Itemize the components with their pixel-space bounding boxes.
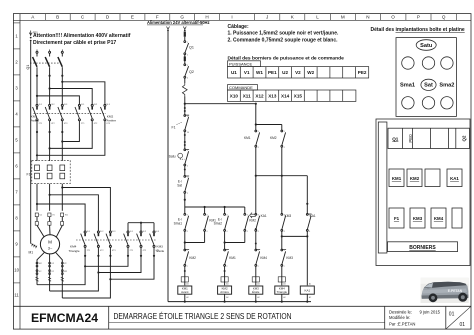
- svg-text:KM3: KM3: [286, 256, 293, 260]
- svg-text:U1: U1: [231, 70, 237, 75]
- wire timer branch E down: [255, 147, 257, 214]
- svg-text:V2: V2: [295, 70, 301, 75]
- PUISSANCE label box: [228, 61, 261, 67]
- header column dividers: [45, 14, 456, 21]
- svg-text:9 juin 2015: 9 juin 2015: [420, 309, 441, 314]
- terminal dot: [224, 270, 226, 272]
- button hole row 1: [402, 57, 453, 69]
- contactor terminal labels top: [87, 231, 160, 252]
- contactor KM2 pole 4: [75, 104, 80, 120]
- contactor KM2 pole 6: [101, 104, 106, 120]
- fuse element chain top: [184, 32, 186, 37]
- wire branch G down: [306, 176, 308, 214]
- terminal ref box branch C: [221, 277, 228, 282]
- Cablage notes: [228, 24, 339, 43]
- svg-text:X14: X14: [281, 93, 290, 98]
- node rail E: [255, 301, 257, 303]
- svg-text:3: 3: [309, 215, 310, 217]
- svg-text:96: 96: [187, 132, 189, 134]
- svg-text:X10: X10: [230, 93, 239, 98]
- svg-text:Triangle: Triangle: [69, 249, 80, 253]
- COMMANDE terminal row: [228, 90, 356, 101]
- wire F1 out pole1: [36, 184, 38, 211]
- svg-text:E: E: [131, 15, 134, 20]
- wire below Q2 aux: [184, 78, 186, 83]
- wire L3 tap to KM2 pole 6: [62, 82, 105, 105]
- svg-text:KM1: KM1: [392, 176, 402, 181]
- wire V1 into motor: [49, 217, 51, 235]
- F1 heater element pole1: [35, 165, 40, 179]
- PUISSANCE terminal row: [228, 67, 369, 78]
- row dividers left column: [13, 23, 20, 283]
- svg-text:4: 4: [284, 147, 285, 149]
- svg-text:B: B: [56, 15, 59, 20]
- KM1 interlock NC contact: [224, 249, 229, 266]
- tie F-G: [282, 235, 308, 237]
- svg-text:M1: M1: [29, 251, 34, 255]
- wire L1 tap to KM2 pole 4: [37, 96, 79, 104]
- thermal relay F1 dashed box: [32, 160, 70, 183]
- node bus branch B: [204, 206, 206, 208]
- svg-text:1: 1: [187, 42, 188, 44]
- svg-text:A1: A1: [283, 283, 285, 286]
- E/Sat label: [177, 180, 182, 188]
- Q1 mechanical link dashed: [30, 62, 61, 64]
- svg-text:2: 2: [187, 193, 188, 195]
- svg-text:2: 2: [187, 266, 188, 268]
- wire branch B from bus: [204, 207, 206, 214]
- svg-text:4: 4: [226, 231, 227, 233]
- thermal F1 module: [389, 208, 404, 228]
- node delta tee pole1: [84, 265, 86, 267]
- svg-text:Sma1: Sma1: [174, 222, 183, 226]
- svg-text:A2: A2: [283, 296, 285, 299]
- E/Sma2 label: [214, 218, 223, 226]
- svg-text:Q1: Q1: [26, 65, 30, 70]
- underline alimentation: [147, 24, 203, 26]
- terminal ref box branch F: [278, 277, 285, 282]
- svg-text:Modifiée le:: Modifiée le:: [389, 315, 410, 320]
- node rail A: [184, 301, 186, 303]
- svg-text:KM3: KM3: [413, 216, 423, 221]
- wire KM2 pole5 output crossover to L2 leg: [50, 121, 93, 149]
- wire branch E mid: [255, 231, 257, 249]
- row numbers 1-11: [14, 34, 19, 298]
- node tap L3 to KM2: [61, 81, 63, 83]
- node junction to timer feed: [184, 103, 186, 105]
- node tap to KM4 pole1: [36, 203, 38, 205]
- wire coil KA1 to rail: [306, 294, 308, 301]
- svg-text:11: 11: [14, 293, 19, 298]
- KM3 Etoile label: [157, 245, 165, 253]
- svg-text:Q1: Q1: [189, 46, 194, 50]
- svg-text:1: 1: [226, 250, 227, 252]
- KM3 contact branch F: [281, 214, 286, 232]
- svg-text:Avant: Avant: [31, 119, 39, 123]
- svg-text:3: 3: [187, 65, 188, 67]
- motor terminal labels U1 V1 W1: [40, 215, 69, 217]
- junction dots under Q1: [36, 75, 64, 77]
- svg-text:PE1: PE1: [268, 70, 277, 75]
- svg-text:KA1: KA1: [261, 214, 267, 218]
- svg-text:3~: 3~: [48, 246, 53, 251]
- svg-text:A2: A2: [186, 296, 188, 299]
- svg-text:3: 3: [258, 215, 259, 217]
- button labels Sma1 Sat Sma2: [400, 83, 454, 89]
- Q1 auxiliary contact: [184, 41, 189, 55]
- wire coil KM2 to rail: [224, 294, 226, 301]
- svg-text:F1: F1: [27, 173, 31, 177]
- circuit breaker Q1 pole 1 blade: [33, 57, 37, 67]
- svg-text:J: J: [266, 15, 268, 20]
- svg-text:2: 2: [187, 54, 188, 56]
- timer feed tie: [256, 124, 282, 126]
- terminal ref box branch E: [252, 277, 259, 282]
- node rail F: [281, 301, 283, 303]
- svg-text:2. Commande 0,75mm2 souple rou: 2. Commande 0,75mm2 souple rouge et blan…: [228, 37, 339, 43]
- svg-text:N: N: [366, 15, 369, 20]
- svg-text:4: 4: [258, 231, 259, 233]
- control rail bottom horizontal: [168, 301, 311, 303]
- contactor KM2 pole 5: [88, 104, 93, 120]
- node tie A: [184, 241, 186, 243]
- PE terminal symbol top left: [29, 31, 32, 42]
- control bus horizontal: [185, 206, 245, 208]
- wire to Q2 aux: [184, 55, 186, 64]
- svg-text:KM2: KM2: [270, 136, 277, 140]
- wire motor bottom W2: [37, 253, 44, 285]
- wire KM2 pole4 output crossover to L3 leg: [62, 121, 79, 142]
- svg-text:KM3: KM3: [285, 214, 292, 218]
- svg-text:COMMANDE: COMMANDE: [229, 85, 253, 90]
- fixed contact ticks power poles: [36, 107, 155, 237]
- svg-text:10: 10: [14, 268, 19, 273]
- relay KA1 module: [447, 169, 462, 187]
- emergency stop Satu contact: [184, 149, 189, 166]
- wire L2 below Q1: [49, 67, 51, 104]
- coil KM4 Triangle: [275, 286, 289, 294]
- KM2 holding contact: [244, 207, 249, 231]
- wire branch C down: [224, 231, 226, 249]
- dessinee info: [389, 309, 441, 326]
- KM1 aux contact timer: [255, 125, 260, 148]
- contactor KM4 module: [431, 208, 446, 228]
- contactor KM1 module: [389, 169, 404, 187]
- svg-text:95: 95: [187, 116, 189, 118]
- svg-text:3: 3: [226, 215, 227, 217]
- svg-text:Dessinée le:: Dessinée le:: [389, 309, 412, 314]
- contactor KM4 triangle pole 1: [81, 231, 86, 247]
- svg-text:Câblage:: Câblage:: [228, 24, 249, 30]
- revision numbers: [449, 312, 465, 328]
- svg-text:Satu: Satu: [420, 43, 433, 49]
- svg-text:PUISSANCE: PUISSANCE: [229, 62, 252, 67]
- wire KM1 pole1 to F1: [36, 121, 38, 161]
- node bus branch C: [224, 206, 226, 208]
- wire KM1 pole2 to F1: [49, 121, 51, 161]
- stop button E/Sat contact: [184, 176, 189, 194]
- circuit breaker Q1 pole 3 blade: [58, 57, 62, 67]
- motor terminal connector V1: [48, 213, 51, 225]
- wire KM4 pole1 down to motor W2: [37, 247, 85, 284]
- svg-text:2: 2: [187, 165, 188, 167]
- wire feed to KA1 timer circuit: [185, 103, 256, 105]
- svg-text:1: 1: [284, 250, 285, 252]
- wire L2 tap to KM2 pole 5: [50, 89, 93, 105]
- svg-text:1: 1: [187, 250, 188, 252]
- wire delta bridge pole3 to etoile pole3: [110, 247, 154, 279]
- E/Sma1 label: [174, 218, 183, 226]
- wire branch D down: [244, 231, 246, 242]
- contactor KM3 etoile pole 2: [137, 231, 142, 247]
- svg-text:1: 1: [258, 250, 259, 252]
- svg-text:A2: A2: [257, 296, 259, 299]
- boite button box: [396, 38, 456, 117]
- node tap to KM4 pole2: [49, 194, 51, 196]
- svg-text:O: O: [391, 15, 395, 20]
- svg-text:2: 2: [226, 266, 227, 268]
- svg-text:Alimentation 24V alternatif-50: Alimentation 24V alternatif-50Hz: [147, 20, 210, 25]
- node tie G mid: [306, 235, 308, 237]
- wire branch G mid: [306, 231, 308, 285]
- svg-text:3: 3: [258, 131, 259, 133]
- KM3 interlock NC contact: [281, 249, 286, 266]
- svg-text:KA1: KA1: [304, 288, 310, 292]
- svg-text:4: 4: [247, 231, 248, 233]
- svg-text:Attention!!!! Alimentation 400: Attention!!!! Alimentation 400V alternat…: [33, 33, 131, 39]
- Sat button ellipse: [421, 79, 436, 90]
- title block divider 3: [445, 306, 447, 329]
- timer feed drop: [255, 104, 257, 125]
- wire tap to KM4 pole2: [50, 195, 99, 231]
- wire KM4 pole2 down to motor U2: [50, 247, 99, 291]
- KM2 aux contact timer: [281, 125, 286, 148]
- svg-text:L: L: [316, 15, 319, 20]
- wire branch B down: [204, 231, 206, 242]
- din row 1 rail: [388, 128, 470, 148]
- node tie E: [255, 175, 257, 177]
- svg-text:KA1: KA1: [450, 176, 459, 181]
- svg-text:W2: W2: [307, 70, 314, 75]
- KA1 NC contact branch G: [306, 214, 311, 232]
- svg-text:2: 2: [284, 266, 285, 268]
- start button E/Sma1 contact: [184, 214, 189, 232]
- contactor KM3 etoile pole 3: [150, 231, 155, 247]
- svg-text:3: 3: [206, 215, 207, 217]
- platine panel box: [376, 119, 470, 266]
- svg-text:Étoile: Étoile: [252, 289, 260, 294]
- svg-text:KM2: KM2: [189, 256, 196, 260]
- svg-text:1: 1: [187, 177, 188, 179]
- F1 heater element pole3: [60, 165, 65, 179]
- KM1 Avant label: [31, 115, 39, 123]
- PE wire down to motor: [30, 42, 32, 244]
- svg-text:Arrière: Arrière: [220, 290, 229, 294]
- svg-text:DEMARRAGE ÉTOILE TRIANGLE 2 SE: DEMARRAGE ÉTOILE TRIANGLE 2 SENS DE ROTA…: [114, 311, 292, 321]
- supply terminal right: [183, 27, 186, 32]
- empty module slot: [425, 169, 440, 187]
- wire to KM3 coil: [255, 266, 257, 285]
- PE connection hatch at motor: [31, 244, 37, 249]
- Detail implantations title: [371, 27, 465, 33]
- thermal squiggle element: [182, 83, 187, 97]
- contactor KM4 triangle pole 2: [94, 231, 99, 247]
- node tap L1 to KM2: [36, 95, 38, 97]
- phase L1 supply terminal: [36, 50, 38, 54]
- svg-text:Satu: Satu: [169, 155, 176, 159]
- motor terminal connector W1: [61, 213, 64, 225]
- empty module slot 2: [452, 208, 462, 228]
- node rail G: [306, 301, 308, 303]
- title block top line: [13, 305, 471, 307]
- svg-text:X13: X13: [268, 93, 277, 98]
- coil KM1 Avant: [178, 286, 192, 294]
- star point bridge KM3 tops: [128, 223, 154, 231]
- svg-text:I: I: [231, 15, 232, 20]
- svg-text:A1: A1: [186, 283, 188, 286]
- node timer feed: [255, 123, 257, 125]
- svg-text:P: P: [417, 15, 420, 20]
- svg-text:Q1: Q1: [392, 136, 399, 141]
- svg-text:KM4: KM4: [434, 216, 444, 221]
- svg-text:A1: A1: [226, 283, 228, 286]
- contactor KM3 etoile pole 1: [124, 231, 129, 247]
- KM1 KM2 mechanical link dashed: [34, 112, 107, 114]
- wire delta bridge pole1 to etoile pole1: [85, 247, 128, 266]
- node tie F: [281, 175, 283, 177]
- tie C-D: [225, 242, 245, 244]
- wire motor bottom U2: [49, 254, 51, 291]
- terminal dots: [184, 134, 186, 146]
- tie to branch G: [256, 175, 307, 177]
- KM4 KM3 mechanical link dashed: [76, 239, 156, 241]
- node branch G: [306, 203, 308, 205]
- supply terminal left: [167, 27, 170, 32]
- svg-text:1: 1: [187, 150, 188, 152]
- wire tap to KM4 pole3: [62, 188, 110, 232]
- vehicle photo: [421, 278, 469, 303]
- node tap L2 to KM2: [49, 87, 51, 89]
- svg-text:E.PETAN: E.PETAN: [448, 289, 463, 293]
- wire to Q1 aux: [184, 37, 186, 41]
- svg-text:V1: V1: [244, 70, 250, 75]
- F1 label leader dashed: [177, 122, 183, 125]
- svg-text:A1: A1: [309, 283, 311, 286]
- cable duct strip: [378, 122, 387, 253]
- contactor KM2 module: [407, 169, 422, 187]
- svg-text:3: 3: [247, 215, 248, 217]
- svg-text:PE2: PE2: [358, 70, 367, 75]
- wire L1 below Q1: [36, 67, 38, 104]
- terminal number ticks: [186, 42, 311, 299]
- svg-text:3: 3: [284, 215, 285, 217]
- F1 NC contact control: [184, 115, 189, 132]
- svg-text:1. Puissance 1,5mm2 souple noi: 1. Puissance 1,5mm2 souple noir et vert/…: [228, 31, 339, 37]
- node timer feed corner: [255, 103, 257, 105]
- svg-text:Sma1: Sma1: [400, 83, 415, 89]
- node delta tee pole2: [97, 271, 99, 273]
- terminal dot: [184, 270, 186, 272]
- svg-text:Directement par câble et prise: Directement par câble et prise P17: [33, 40, 116, 46]
- contactor KM1 pole 1: [33, 104, 38, 120]
- terminal dots branch E: [255, 228, 257, 245]
- svg-text:W1: W1: [256, 70, 263, 75]
- svg-text:KM1: KM1: [229, 256, 236, 260]
- contactor KM4 triangle pole 3: [106, 231, 111, 247]
- wire coil KM1 to rail: [184, 294, 186, 301]
- svg-text:M: M: [48, 240, 52, 245]
- frame left number column line: [19, 14, 21, 330]
- wire to junction: [184, 97, 186, 115]
- svg-text:F1: F1: [172, 126, 176, 130]
- wire below F1: [184, 132, 186, 149]
- KM4 Triangle label: [69, 245, 80, 253]
- svg-text:KM2: KM2: [410, 176, 420, 181]
- button hole row 2: [402, 97, 453, 109]
- svg-text:4: 4: [309, 231, 310, 233]
- KM2 interlock NC contact: [184, 249, 189, 266]
- motor bottom terminal labels: [39, 263, 68, 273]
- svg-text:Sma2: Sma2: [439, 83, 454, 89]
- wire delta bridge pole2 to etoile pole2: [98, 247, 141, 272]
- svg-text:4: 4: [284, 231, 285, 233]
- KA1 timed contact: [255, 214, 260, 232]
- wire to KM2 coil: [224, 266, 226, 285]
- node crossover pole5: [49, 147, 51, 149]
- contactor KM1 pole 3: [58, 104, 63, 120]
- F1 heater element pole2: [47, 165, 52, 179]
- wire tap to KM4 pole1: [37, 204, 85, 231]
- Q2 auxiliary contact: [184, 64, 189, 78]
- coil KM3 Etoile: [249, 286, 263, 294]
- node crossover pole6: [36, 154, 38, 156]
- svg-text:X15: X15: [294, 93, 303, 98]
- title cell sub line: [109, 322, 385, 324]
- svg-text:EFMCMA24: EFMCMA24: [31, 313, 99, 325]
- junction dots below KM1: [36, 131, 64, 133]
- KM2 Arriere label: [107, 115, 117, 123]
- wire KM4 pole3 down to motor V2: [62, 247, 110, 298]
- coil KM2 Arriere: [218, 286, 232, 294]
- svg-text:KM4: KM4: [260, 256, 267, 260]
- wire L2 into Q1: [49, 53, 51, 56]
- wheels: [429, 293, 438, 302]
- wire to KM1 coil: [184, 266, 186, 285]
- wire branch A down: [184, 231, 186, 249]
- wire coil KM3 to rail: [255, 294, 257, 301]
- COMMANDE label box: [228, 85, 258, 90]
- svg-text:Q2: Q2: [189, 70, 194, 74]
- wire L3 below Q1: [61, 67, 63, 104]
- node crossover pole4: [61, 140, 63, 142]
- svg-text:X11: X11: [243, 93, 251, 98]
- node tap to KM4 pole3: [61, 186, 63, 188]
- wire branch F mid: [281, 231, 283, 249]
- svg-text:Sma2: Sma2: [214, 222, 223, 226]
- svg-text:4: 4: [258, 147, 259, 149]
- wire to KM4 coil: [281, 266, 283, 285]
- svg-text:KM2: KM2: [249, 219, 256, 223]
- svg-text:A2: A2: [309, 296, 311, 299]
- svg-text:BORNIERS: BORNIERS: [409, 245, 436, 251]
- Satu emergency button: [416, 40, 436, 51]
- motor terminal connector U1: [35, 213, 38, 225]
- svg-text:Détail des implantations boîte: Détail des implantations boîte et platin…: [371, 27, 465, 33]
- circuit breaker Q1 pole 2 blade: [45, 57, 49, 67]
- svg-text:3: 3: [284, 131, 285, 133]
- BORNIERS strip: [388, 242, 458, 252]
- header column letters A-Q: [31, 15, 446, 20]
